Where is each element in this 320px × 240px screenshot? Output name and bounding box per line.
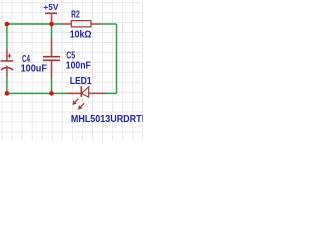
- wire: resistor output to right corner: [101, 23, 116, 25]
- capacitor C4 plus sign: [8, 53, 11, 58]
- svg-text:+5V: +5V: [43, 2, 58, 12]
- capacitor C5 top plate: [43, 56, 60, 58]
- resistor R2 pin 1: [62, 23, 72, 25]
- capacitor C4 top pin: [6, 49, 8, 61]
- junction bottom-left: [5, 91, 10, 96]
- svg-text:100nF: 100nF: [66, 61, 91, 72]
- capacitor C5 top pin: [51, 39, 53, 57]
- wire: left vertical below C4: [6, 77, 8, 93]
- wire: bottom net left segment: [7, 92, 66, 94]
- wire: C5 lower green segment: [51, 78, 53, 93]
- wire: left vertical above C4: [6, 24, 8, 49]
- svg-text:MHL5013URDRT: MHL5013URDRT: [71, 113, 142, 125]
- capacitor C4 straight plate: [1, 60, 14, 62]
- svg-text:100uF: 100uF: [21, 64, 47, 75]
- svg-text:LED1: LED1: [70, 76, 92, 87]
- label sliver of cut character at image edge: [141, 115, 144, 122]
- wire: C5 upper green segment: [51, 24, 53, 39]
- resistor R2 pin 2: [91, 23, 101, 25]
- LED1 anode pin: [89, 92, 106, 94]
- LED1 cathode bar: [80, 86, 82, 97]
- capacitor C4 curved plate: [1, 68, 13, 70]
- resistor R2 body: [71, 21, 91, 27]
- LED1 emission arrow 2: [78, 103, 84, 109]
- junction at +5V node: [49, 22, 54, 27]
- power symbol +5V bar: [45, 12, 57, 14]
- LED1 triangle: [81, 87, 88, 97]
- capacitor C5 bottom pin: [51, 60, 53, 78]
- LED1 cathode pin: [66, 92, 81, 94]
- wire: top net green segment: [7, 23, 62, 25]
- wire: bottom right to LED anode: [106, 92, 117, 94]
- capacitor C5 bottom plate: [43, 59, 60, 61]
- wire: right vertical: [116, 24, 118, 93]
- svg-text:10kΩ: 10kΩ: [70, 30, 92, 41]
- LED1 emission arrow 1: [73, 99, 79, 105]
- power symbol +5V stub: [51, 13, 53, 24]
- junction at C5 bottom: [49, 91, 54, 96]
- capacitor C4 bottom pin: [6, 66, 8, 78]
- svg-text:R2: R2: [71, 10, 80, 21]
- grid (decorative): [0, 0, 143, 141]
- junction top-left: [5, 22, 10, 27]
